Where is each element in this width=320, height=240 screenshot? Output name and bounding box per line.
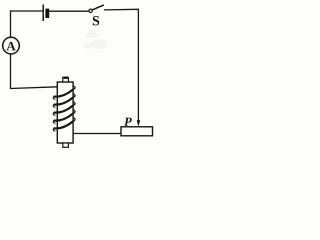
solenoid bottom nub: [63, 143, 69, 147]
wire left vertical upper: [10, 11, 12, 38]
coil turn 5: [53, 118, 75, 131]
rheostat box: [121, 127, 153, 136]
coil turn 1: [53, 86, 75, 99]
wire top-left: [11, 10, 43, 12]
label S: [93, 16, 99, 25]
wire right vertical: [137, 9, 139, 121]
wire switch-to-corner: [105, 8, 139, 11]
solenoid core body: [57, 82, 73, 143]
wire left vertical lower: [10, 54, 12, 88]
solenoid top nub cap: [64, 77, 68, 79]
rheostat wiper arrowhead: [137, 120, 141, 126]
switch S: [89, 5, 103, 12]
coil turn 2: [53, 94, 75, 107]
wire battery-to-switch: [49, 10, 88, 12]
ammeter A: [3, 37, 20, 54]
label P: [124, 118, 132, 126]
wire coil-to-rheostat: [73, 133, 121, 135]
battery: [43, 5, 49, 22]
wire bottom-left horizontal: [11, 87, 58, 89]
coil turn 3: [53, 102, 75, 115]
solenoid top nub: [63, 77, 69, 82]
coil turn 4: [53, 110, 75, 123]
